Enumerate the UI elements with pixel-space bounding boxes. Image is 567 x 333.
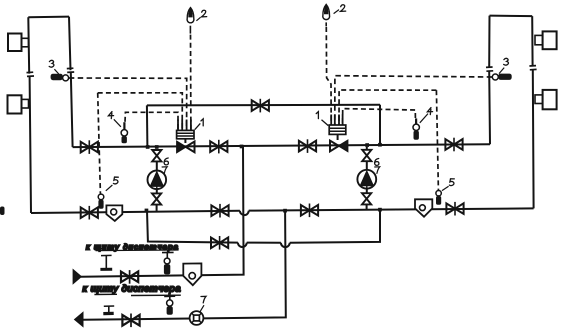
sensor 5 left (capsule above return): [98, 194, 104, 209]
pump branch right: wire: [366, 147, 368, 210]
label 6 right: [375, 159, 379, 166]
control valve unit 1 right: actuator: [329, 125, 346, 140]
sensor 4 left (capsule above supply): [121, 122, 127, 143]
pump branch left: wire: [156, 149, 158, 211]
pipe hop: C-riser crossing line A: [281, 243, 290, 247]
label 7 right: [375, 167, 380, 174]
junction node supply/bypass right: [378, 143, 382, 147]
junction node supply/bypass: [146, 145, 150, 149]
label 1 left: [195, 119, 203, 130]
valve V11 line B: [121, 270, 138, 284]
junction node supply/pump branch left: [155, 145, 159, 149]
pipe hop: B-riser crossing line A: [238, 243, 247, 247]
control valve unit 1 left: actuator: [177, 130, 194, 143]
valve V6 return mid-left: [211, 204, 228, 218]
junction node return/line A right: [378, 208, 382, 212]
impulse line from sensor 2 right to actuator: [326, 27, 331, 125]
pump 7 right (circle with triangle): [357, 170, 376, 189]
flange tick on H2 left edge: [486, 67, 493, 71]
sensor 5 right (capsule above return): [436, 191, 441, 205]
radiator P1 (upper left): [8, 34, 29, 52]
heater riser block H2 (right building): [489, 16, 533, 209]
flow meter pentagon left return: [106, 205, 122, 221]
valve V2 supply mid-left: [210, 140, 227, 154]
label 4 right: [420, 108, 433, 123]
radiator P2 (lower left): [8, 95, 29, 113]
shut-off valve 6 left (vertical): [152, 150, 161, 161]
caption: to dispatcher board (line C): [83, 284, 181, 296]
impulse stubs above right actuator: [331, 115, 342, 125]
label 5 left: [106, 177, 119, 191]
valve V12 line C: [122, 314, 139, 328]
thermometer sensor on line C: [164, 296, 175, 315]
impulse line from sensor 4 right to actuator: [343, 109, 416, 125]
shut-off valve below pump left (vertical): [152, 193, 161, 204]
valve V10 line A: [211, 236, 228, 250]
shut-off valve 6 right (vertical): [362, 150, 371, 161]
radiator P4 (lower right): [535, 90, 557, 109]
control valve 1 left body: [177, 142, 195, 153]
arrow into line B: [73, 270, 81, 284]
label 7 for restrictor: [200, 296, 206, 312]
wire: supply header line: [73, 144, 490, 147]
thermometer sensor on line B: [162, 252, 174, 274]
impulse line from sensor 5 left (dashed drop): [98, 93, 183, 194]
dispatcher stub on line C: [103, 306, 114, 314]
flow meter pentagon line B: [183, 263, 201, 285]
shut-off valve below pump right (vertical): [362, 193, 371, 204]
flange tick on H2 right edge: [529, 66, 536, 70]
impulse line from sensor 4 left to actuator: [125, 112, 178, 130]
label 5 right: [442, 179, 454, 191]
sensor 4 right (capsule above supply): [413, 118, 419, 139]
radiator P3 (upper right): [535, 31, 557, 49]
flange tick on H1 left edge: [27, 72, 35, 76]
valve V7 return mid-right: [301, 204, 318, 218]
flange tick on H1 right edge: [67, 68, 74, 72]
sensor 3 left (wall thermometer): [51, 74, 69, 81]
ink smudge at left margin: [0, 207, 5, 216]
heater riser block H1 (left building): [28, 17, 72, 213]
caption: to dispatcher board (line B): [86, 242, 179, 251]
valve V3 supply mid-right: [299, 139, 316, 153]
label 2 left: [196, 10, 206, 21]
label 7 left: [162, 167, 167, 174]
arrow out of line C: [75, 313, 83, 327]
pipe hop: B-riser crossing return line: [240, 211, 249, 215]
junction node supply/pump branch right: [365, 143, 369, 147]
label 3 right: [499, 58, 508, 73]
pump 7 left (circle with triangle): [148, 171, 167, 190]
flow meter pentagon right return: [415, 199, 432, 216]
sensor 2 left (thermometer bulb): [187, 8, 194, 34]
junction node return/C-riser: [283, 209, 287, 213]
svg-text:к щиту диспетчера: к щиту диспетчера: [83, 284, 181, 295]
wire: line B (network supply from dispatcher side): [81, 147, 244, 277]
flow restrictor 7 on line C: [190, 311, 204, 325]
label 3 left: [49, 60, 59, 74]
junction node supply/B-riser: [240, 145, 244, 149]
label 4 left: [108, 112, 121, 127]
wire: return header line: [31, 208, 534, 213]
valve V9 bypass: [252, 99, 269, 113]
wire: line C (network return): [83, 211, 286, 320]
impulse line from sensor 5 right (dashed drop): [339, 90, 438, 190]
dispatcher stub on line B: [100, 255, 112, 269]
label 2 right: [334, 5, 346, 14]
valve V5 return left: [81, 206, 98, 220]
wire: bypass line between units: [147, 105, 380, 147]
label 1 right: [316, 112, 328, 126]
label 6 left: [164, 158, 168, 165]
valve V8 return right: [446, 202, 463, 216]
impulse line from sensor 3 left to actuator: [69, 78, 187, 130]
impulse stubs above left actuator: [178, 120, 191, 131]
valve V1 supply left: [81, 140, 98, 154]
wire: line A (return cross-connection): [147, 210, 380, 243]
impulse line from sensor 2 left to actuator: [190, 35, 192, 131]
valve V4 supply right: [445, 138, 462, 152]
sensor 3 right (wall thermometer): [492, 74, 511, 80]
junction node return/line A left: [145, 209, 149, 213]
sensor 2 right (thermometer bulb): [323, 4, 330, 26]
control valve 1 right body: [330, 141, 348, 152]
impulse line from sensor 3 right to actuator: [335, 76, 492, 125]
